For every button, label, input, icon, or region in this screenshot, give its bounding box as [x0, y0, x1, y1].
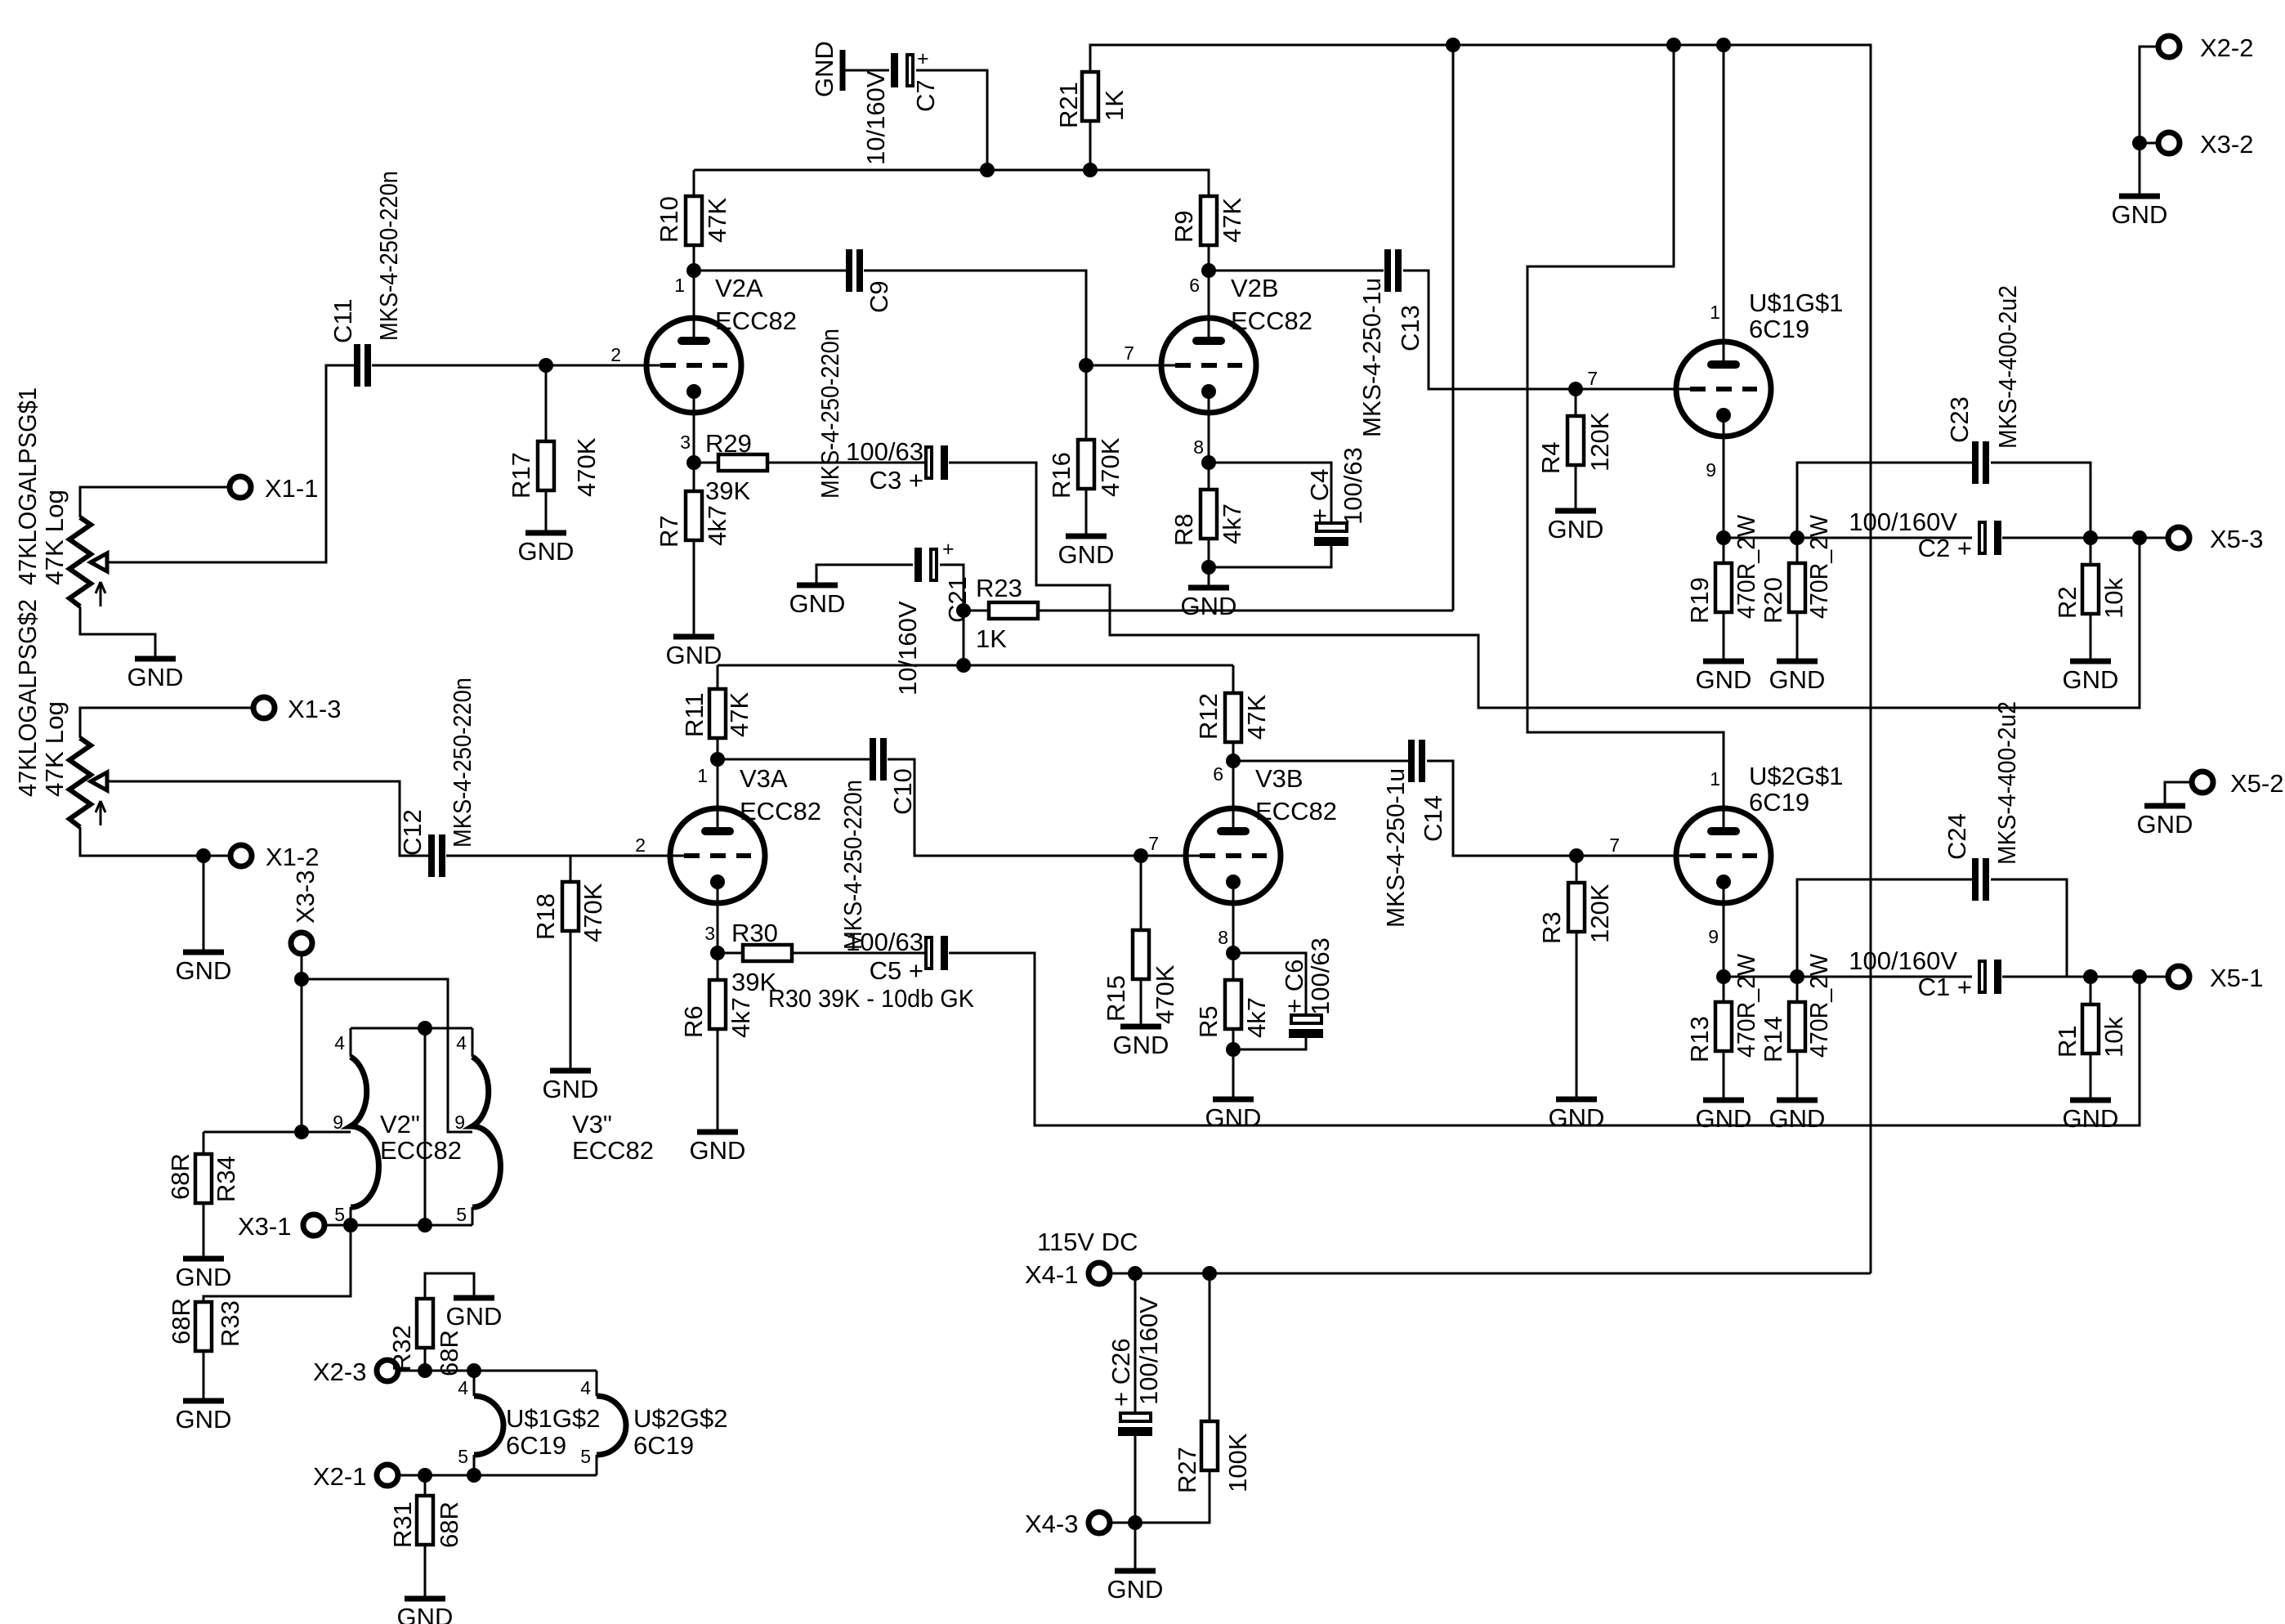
svg-text:47KLOGALPSG$2: 47KLOGALPSG$2 — [13, 599, 42, 797]
svg-text:GND: GND — [543, 1075, 599, 1103]
svg-text:X1-1: X1-1 — [265, 474, 318, 503]
svg-text:120K: 120K — [1585, 412, 1614, 472]
svg-text:C1 +: C1 + — [1918, 973, 1972, 1001]
svg-text:R20: R20 — [1759, 577, 1787, 624]
svg-text:U$2G$2: U$2G$2 — [633, 1404, 727, 1433]
svg-text:GND: GND — [810, 41, 838, 97]
svg-text:470K: 470K — [1096, 437, 1125, 497]
svg-text:U$1G$1: U$1G$1 — [1749, 289, 1843, 317]
svg-text:MKS-4-400-2u2: MKS-4-400-2u2 — [1993, 285, 2022, 449]
svg-text:47K Log: 47K Log — [40, 490, 69, 585]
svg-text:ECC82: ECC82 — [740, 797, 821, 825]
svg-text:4: 4 — [458, 1377, 468, 1398]
svg-text:1: 1 — [697, 765, 708, 786]
svg-text:47K: 47K — [1242, 695, 1271, 740]
svg-text:MKS-4-250-1u: MKS-4-250-1u — [1357, 278, 1386, 437]
svg-text:+ C26: + C26 — [1107, 1338, 1135, 1407]
svg-text:R23: R23 — [976, 574, 1022, 602]
svg-text:R6: R6 — [679, 1005, 708, 1038]
svg-text:100/160V: 100/160V — [1849, 946, 1957, 975]
svg-text:X4-3: X4-3 — [1025, 1510, 1078, 1538]
svg-text:GND: GND — [1181, 592, 1237, 620]
svg-text:C5 +: C5 + — [870, 956, 923, 985]
svg-text:C3 +: C3 + — [870, 466, 923, 494]
svg-text:5: 5 — [580, 1446, 591, 1467]
svg-text:GND: GND — [2063, 665, 2119, 694]
svg-text:R14: R14 — [1759, 1016, 1787, 1063]
svg-text:V3": V3" — [572, 1110, 612, 1139]
svg-text:470K: 470K — [579, 883, 607, 942]
svg-text:R5: R5 — [1194, 1005, 1223, 1038]
svg-text:C14: C14 — [1419, 795, 1447, 842]
svg-text:47K: 47K — [1218, 198, 1246, 243]
svg-text:470R_2W: 470R_2W — [1732, 953, 1760, 1058]
svg-text:V2A: V2A — [715, 274, 763, 302]
svg-text:V3B: V3B — [1255, 764, 1303, 793]
svg-text:GND: GND — [397, 1603, 454, 1624]
svg-text:R18: R18 — [531, 893, 560, 940]
svg-text:+ C4: + C4 — [1305, 469, 1334, 523]
svg-text:470R_2W: 470R_2W — [1804, 953, 1833, 1058]
svg-text:470R_2W: 470R_2W — [1804, 514, 1833, 619]
svg-text:X5-2: X5-2 — [2230, 769, 2283, 798]
svg-text:9: 9 — [333, 1112, 343, 1133]
svg-text:C13: C13 — [1396, 305, 1424, 351]
svg-text:R8: R8 — [1169, 513, 1198, 546]
svg-text:9: 9 — [1706, 459, 1716, 481]
svg-text:R30 39K - 10db GK: R30 39K - 10db GK — [768, 984, 974, 1013]
svg-text:R2: R2 — [2053, 586, 2082, 619]
svg-text:V2B: V2B — [1231, 274, 1279, 302]
svg-text:GND: GND — [1548, 515, 1604, 544]
svg-text:GND: GND — [518, 537, 575, 566]
svg-text:47K Log: 47K Log — [40, 701, 69, 797]
svg-text:GND: GND — [1696, 1104, 1752, 1133]
svg-text:115V DC: 115V DC — [1037, 1228, 1138, 1256]
svg-text:4k7: 4k7 — [703, 505, 731, 546]
svg-text:2: 2 — [610, 344, 621, 365]
svg-text:68R: 68R — [167, 1298, 195, 1344]
svg-text:GND: GND — [1058, 540, 1115, 569]
svg-text:100/160V: 100/160V — [1849, 508, 1957, 536]
svg-text:6: 6 — [1213, 763, 1223, 785]
svg-text:68R: 68R — [166, 1153, 195, 1200]
svg-text:68R: 68R — [435, 1501, 463, 1548]
svg-text:7: 7 — [1609, 834, 1620, 856]
svg-text:MKS-4-250-220n: MKS-4-250-220n — [838, 780, 867, 950]
svg-text:GND: GND — [789, 589, 846, 618]
svg-text:GND: GND — [176, 956, 232, 985]
svg-text:5: 5 — [456, 1204, 467, 1225]
svg-text:7: 7 — [1124, 342, 1134, 364]
svg-text:R31: R31 — [388, 1501, 417, 1548]
svg-text:R19: R19 — [1685, 577, 1714, 624]
svg-text:6C19: 6C19 — [633, 1431, 694, 1460]
svg-text:ECC82: ECC82 — [715, 306, 797, 335]
svg-text:GND: GND — [1113, 1031, 1169, 1059]
svg-text:6C19: 6C19 — [1749, 788, 1809, 816]
svg-text:R27: R27 — [1173, 1447, 1201, 1493]
svg-text:GND: GND — [127, 663, 184, 691]
svg-text:X4-1: X4-1 — [1025, 1260, 1078, 1289]
svg-text:GND: GND — [2112, 200, 2168, 229]
svg-text:C10: C10 — [888, 768, 917, 815]
svg-text:X3-2: X3-2 — [2200, 130, 2253, 159]
svg-text:C24: C24 — [1943, 813, 1971, 860]
svg-text:GND: GND — [690, 1136, 746, 1165]
svg-text:4: 4 — [334, 1032, 345, 1054]
svg-text:X2-2: X2-2 — [2200, 34, 2253, 62]
svg-text:1K: 1K — [976, 624, 1007, 653]
svg-text:X2-3: X2-3 — [313, 1358, 366, 1386]
svg-text:470K: 470K — [572, 437, 601, 497]
svg-text:X1-2: X1-2 — [266, 843, 319, 871]
svg-text:68R: 68R — [435, 1330, 463, 1376]
svg-text:R1: R1 — [2053, 1025, 2082, 1058]
svg-text:9: 9 — [454, 1112, 465, 1133]
svg-text:100K: 100K — [1223, 1433, 1252, 1492]
svg-text:1: 1 — [1710, 768, 1720, 790]
svg-text:2: 2 — [635, 834, 646, 856]
svg-text:X2-1: X2-1 — [313, 1462, 366, 1491]
svg-text:R12: R12 — [1194, 693, 1223, 740]
svg-text:MKS-4-250-220n: MKS-4-250-220n — [448, 678, 476, 848]
svg-text:100/63: 100/63 — [846, 928, 923, 956]
svg-text:7: 7 — [1148, 833, 1159, 854]
svg-text:3: 3 — [704, 923, 715, 944]
svg-text:R10: R10 — [655, 196, 683, 243]
svg-text:GND: GND — [1696, 665, 1752, 694]
svg-text:8: 8 — [1218, 927, 1228, 948]
svg-text:100/160V: 100/160V — [1134, 1296, 1163, 1405]
svg-text:GND: GND — [176, 1263, 232, 1291]
svg-text:+ C6: + C6 — [1280, 960, 1308, 1013]
svg-text:GND: GND — [666, 641, 722, 669]
svg-text:10k: 10k — [2099, 1017, 2128, 1058]
svg-text:8: 8 — [1193, 436, 1204, 458]
svg-text:3: 3 — [680, 432, 691, 453]
svg-text:X3-1: X3-1 — [238, 1212, 291, 1241]
svg-text:1K: 1K — [1100, 90, 1129, 121]
svg-text:470R_2W: 470R_2W — [1732, 514, 1760, 619]
svg-text:+: + — [917, 47, 929, 70]
svg-text:GND: GND — [1769, 1104, 1826, 1133]
svg-text:6C19: 6C19 — [1749, 315, 1809, 343]
svg-text:R11: R11 — [680, 692, 709, 737]
svg-text:470K: 470K — [1151, 964, 1179, 1024]
svg-text:C23: C23 — [1945, 396, 1974, 443]
svg-text:10k: 10k — [2099, 578, 2128, 619]
svg-text:39K: 39K — [705, 476, 750, 505]
svg-text:MKS-4-400-2u2: MKS-4-400-2u2 — [1992, 701, 2021, 865]
svg-text:R13: R13 — [1685, 1016, 1714, 1063]
svg-text:47K: 47K — [725, 692, 753, 737]
svg-text:C9: C9 — [865, 280, 893, 313]
svg-text:C11: C11 — [329, 298, 357, 343]
svg-text:R16: R16 — [1047, 452, 1075, 499]
svg-text:100/63: 100/63 — [1306, 937, 1335, 1015]
svg-text:R3: R3 — [1537, 911, 1566, 944]
svg-text:MKS-4-250-220n: MKS-4-250-220n — [374, 171, 403, 341]
svg-text:R7: R7 — [655, 515, 683, 548]
svg-text:GND: GND — [1769, 665, 1826, 694]
svg-text:4k7: 4k7 — [727, 997, 755, 1038]
svg-text:10/160V: 10/160V — [893, 601, 922, 696]
svg-text:1: 1 — [674, 275, 685, 296]
svg-text:+: + — [942, 538, 955, 561]
svg-text:R34: R34 — [212, 1156, 240, 1202]
svg-text:X3-3: X3-3 — [291, 870, 320, 924]
svg-text:ECC82: ECC82 — [1255, 797, 1337, 825]
svg-text:1: 1 — [1710, 302, 1720, 323]
svg-text:100/63: 100/63 — [1339, 447, 1367, 525]
svg-text:9: 9 — [1708, 926, 1719, 947]
svg-text:U$1G$2: U$1G$2 — [506, 1404, 600, 1433]
svg-text:47KLOGALPSG$1: 47KLOGALPSG$1 — [13, 387, 42, 585]
svg-text:C21: C21 — [943, 576, 972, 623]
svg-text:5: 5 — [334, 1204, 345, 1225]
svg-text:R17: R17 — [507, 452, 535, 499]
svg-text:5: 5 — [458, 1446, 468, 1467]
svg-text:V2": V2" — [380, 1110, 420, 1139]
svg-text:ECC82: ECC82 — [1231, 306, 1312, 335]
svg-text:X5-1: X5-1 — [2210, 964, 2263, 992]
svg-text:6C19: 6C19 — [506, 1431, 566, 1460]
svg-text:ECC82: ECC82 — [572, 1136, 654, 1165]
svg-text:R9: R9 — [1169, 210, 1198, 243]
svg-text:MKS-4-250-220n: MKS-4-250-220n — [816, 329, 844, 499]
svg-text:100/63: 100/63 — [846, 437, 923, 466]
svg-text:GND: GND — [446, 1302, 503, 1331]
svg-text:4: 4 — [580, 1377, 591, 1398]
svg-text:GND: GND — [1107, 1575, 1164, 1604]
svg-text:C7: C7 — [911, 79, 940, 112]
svg-text:C12: C12 — [398, 809, 427, 856]
svg-text:GND: GND — [1205, 1103, 1262, 1132]
svg-text:R15: R15 — [1102, 975, 1130, 1022]
svg-text:47K: 47K — [703, 198, 731, 243]
svg-text:GND: GND — [1549, 1103, 1605, 1132]
svg-text:X5-3: X5-3 — [2210, 525, 2263, 553]
svg-text:R32: R32 — [387, 1325, 416, 1371]
svg-text:U$2G$1: U$2G$1 — [1749, 762, 1843, 790]
svg-text:R30: R30 — [731, 919, 778, 947]
svg-text:V3A: V3A — [740, 764, 788, 793]
svg-text:GND: GND — [2137, 810, 2193, 839]
svg-text:7: 7 — [1587, 368, 1598, 389]
svg-text:R4: R4 — [1536, 441, 1565, 474]
svg-text:MKS-4-250-1u: MKS-4-250-1u — [1381, 768, 1410, 928]
svg-text:GND: GND — [2063, 1104, 2119, 1133]
svg-text:ECC82: ECC82 — [380, 1136, 462, 1165]
svg-text:4k7: 4k7 — [1242, 997, 1271, 1038]
svg-text:GND: GND — [176, 1405, 232, 1434]
svg-text:R29: R29 — [705, 429, 752, 458]
svg-text:4: 4 — [456, 1032, 467, 1054]
svg-text:R33: R33 — [216, 1300, 244, 1347]
svg-text:C2 +: C2 + — [1918, 534, 1972, 562]
svg-text:R21: R21 — [1054, 82, 1083, 128]
svg-text:X1-3: X1-3 — [288, 695, 341, 723]
svg-text:4k7: 4k7 — [1218, 503, 1246, 544]
svg-text:6: 6 — [1189, 275, 1200, 296]
svg-text:120K: 120K — [1585, 884, 1614, 943]
svg-text:10/160V: 10/160V — [861, 70, 890, 165]
